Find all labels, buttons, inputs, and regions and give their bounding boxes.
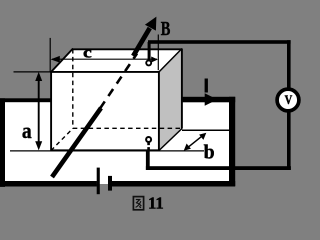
edge: bottom-right slant <box>159 129 182 151</box>
wire: bottom horizontal, battery left segment <box>0 181 97 187</box>
slab top face <box>51 49 182 73</box>
magnetic field B line: dashed segment inside slab <box>100 54 137 109</box>
magnetic field B line: lower solid segment <box>52 108 101 177</box>
svg-text:B: B <box>161 18 171 40</box>
terminal: bottom face contact circle <box>146 137 151 142</box>
dimension c: left extension line <box>49 38 51 72</box>
dimension a: top extension line <box>14 71 52 73</box>
dimension c: right extension line <box>157 35 159 71</box>
caption: hanzi TU (figure) drawn glyph <box>133 197 143 210</box>
edge: front-left <box>50 71 52 150</box>
dimension c: line <box>52 58 157 60</box>
wire: right vertical of main loop <box>229 97 235 186</box>
wire: top-left horizontal to slab left face <box>0 98 51 102</box>
wire: current feed from slab right face <box>180 97 235 103</box>
dimension b: double arrow <box>186 134 205 149</box>
terminal: top face contact circle <box>146 60 151 65</box>
battery: short plate <box>108 176 112 191</box>
svg-text:c: c <box>83 45 92 62</box>
wire: left vertical of main loop <box>0 98 5 187</box>
dimension b: upper-right arrowhead <box>199 133 206 140</box>
svg-text:11: 11 <box>148 194 164 213</box>
wire: voltmeter bottom lead horizontal <box>146 166 291 170</box>
svg-text:V: V <box>285 92 293 107</box>
dimension a: vertical line <box>38 76 40 146</box>
wire: voltmeter bottom lead vertical <box>287 110 291 170</box>
edge: back-right vertical <box>181 49 183 129</box>
dimension b: lower-left arrowhead <box>184 144 191 151</box>
wire: drop from voltmeter top lead to top terminal <box>148 42 151 61</box>
svg-text:a: a <box>22 118 32 143</box>
dimension a: bottom extension line <box>10 150 204 152</box>
svg-text:b: b <box>204 141 215 163</box>
slab front face <box>51 72 159 151</box>
label I (current) <box>205 79 208 93</box>
edge: top-right slant <box>159 49 182 73</box>
magnetic field B line: upper solid shaft <box>133 28 150 56</box>
dimension a: upper arrowhead <box>35 72 42 81</box>
hidden edge: back-left vertical (dashed) <box>72 49 74 129</box>
wire: hidden dashed drop from bottom terminal <box>147 143 150 152</box>
magnetic field B: arrowhead <box>145 17 157 31</box>
dimension c: right arrowhead <box>151 57 158 63</box>
current I arrowhead on feed wire <box>205 93 218 106</box>
slab right face <box>159 49 182 151</box>
edge: front-top <box>50 71 159 73</box>
edge: top-left slant <box>51 49 73 73</box>
hidden edge: back-bottom (dashed) <box>73 127 182 129</box>
edge: back-top <box>72 48 182 50</box>
hidden edge: bottom-left slant (dashed) <box>51 129 73 151</box>
wire: bottom terminal solid drop <box>146 151 150 170</box>
voltmeter V <box>277 89 299 111</box>
edge: front-bottom <box>51 149 159 151</box>
edge: front-right <box>158 72 160 151</box>
dimension c: left arrowhead <box>51 56 60 63</box>
battery: long plate <box>97 168 100 195</box>
wire: voltmeter top lead horizontal <box>148 40 291 44</box>
dimension b: extension line at back-bottom level <box>182 129 233 131</box>
dimension a: lower arrowhead <box>35 141 42 150</box>
white interior of circuit loop <box>2 100 230 184</box>
wire: bottom horizontal, battery right segment <box>112 181 235 187</box>
wire: voltmeter top lead vertical <box>287 40 291 88</box>
